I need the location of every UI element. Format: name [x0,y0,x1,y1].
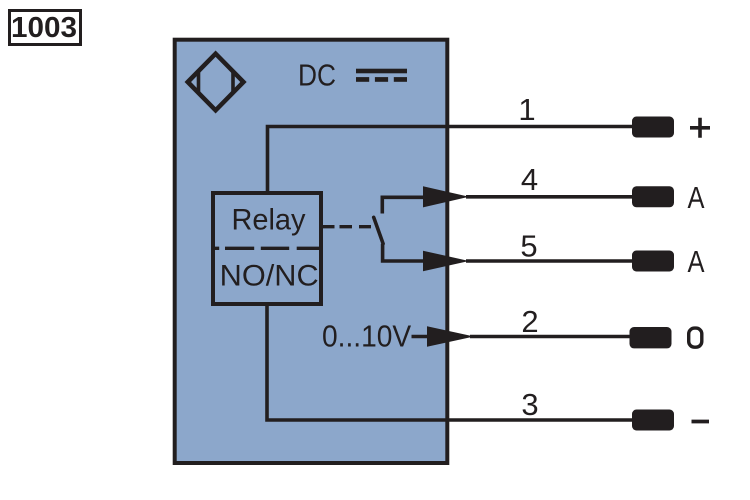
svg-text:1: 1 [518,92,535,127]
switch lever [374,217,383,243]
switch bottom contact [383,244,424,261]
DC symbol dashed bar [356,77,407,82]
relay NO/NC divider dashed line [211,247,323,250]
DC symbol solid bar [356,69,407,74]
terminal block wire 5 [632,251,674,272]
wire 4 [466,195,632,199]
figure number box 1003 [10,11,81,45]
arrow on wire 5 [423,251,469,272]
svg-text:DC: DC [298,58,336,93]
wire 3: relay bottom down and right to terminal - [267,306,632,420]
terminal block wire 1 [632,117,674,138]
svg-text:3: 3 [521,387,538,422]
sensor body [175,40,448,463]
switch top contact [382,197,424,213]
terminal block wire 4 [632,186,674,207]
minus label [692,420,710,424]
svg-text:2: 2 [521,304,538,339]
plus label [690,118,710,138]
terminal block wire 3 [632,410,674,431]
wire 2 stub from label [412,335,429,339]
arrow on wire 2 [427,326,474,347]
relay box [213,193,321,304]
svg-text:A: A [688,244,705,279]
O label wire 2 [689,328,702,347]
svg-text:5: 5 [520,229,537,264]
arrow on wire 4 [423,186,469,207]
svg-text:1003: 1003 [11,12,77,44]
wire 1: relay top up and right to terminal + [268,127,633,192]
wire 2 [470,335,632,339]
proximity symbol right arrowhead [233,72,243,93]
relay actuation dashed link [323,225,371,228]
proximity sensor symbol (diamond) [188,54,244,111]
terminal block wire 2 [630,327,672,348]
svg-text:4: 4 [521,162,538,197]
proximity symbol left arrowhead [189,72,199,93]
svg-text:Relay: Relay [232,204,306,237]
svg-text:0...10V: 0...10V [322,319,411,354]
wire 5 [466,259,632,263]
svg-text:NO/NC: NO/NC [220,260,319,293]
svg-text:A: A [688,180,705,215]
